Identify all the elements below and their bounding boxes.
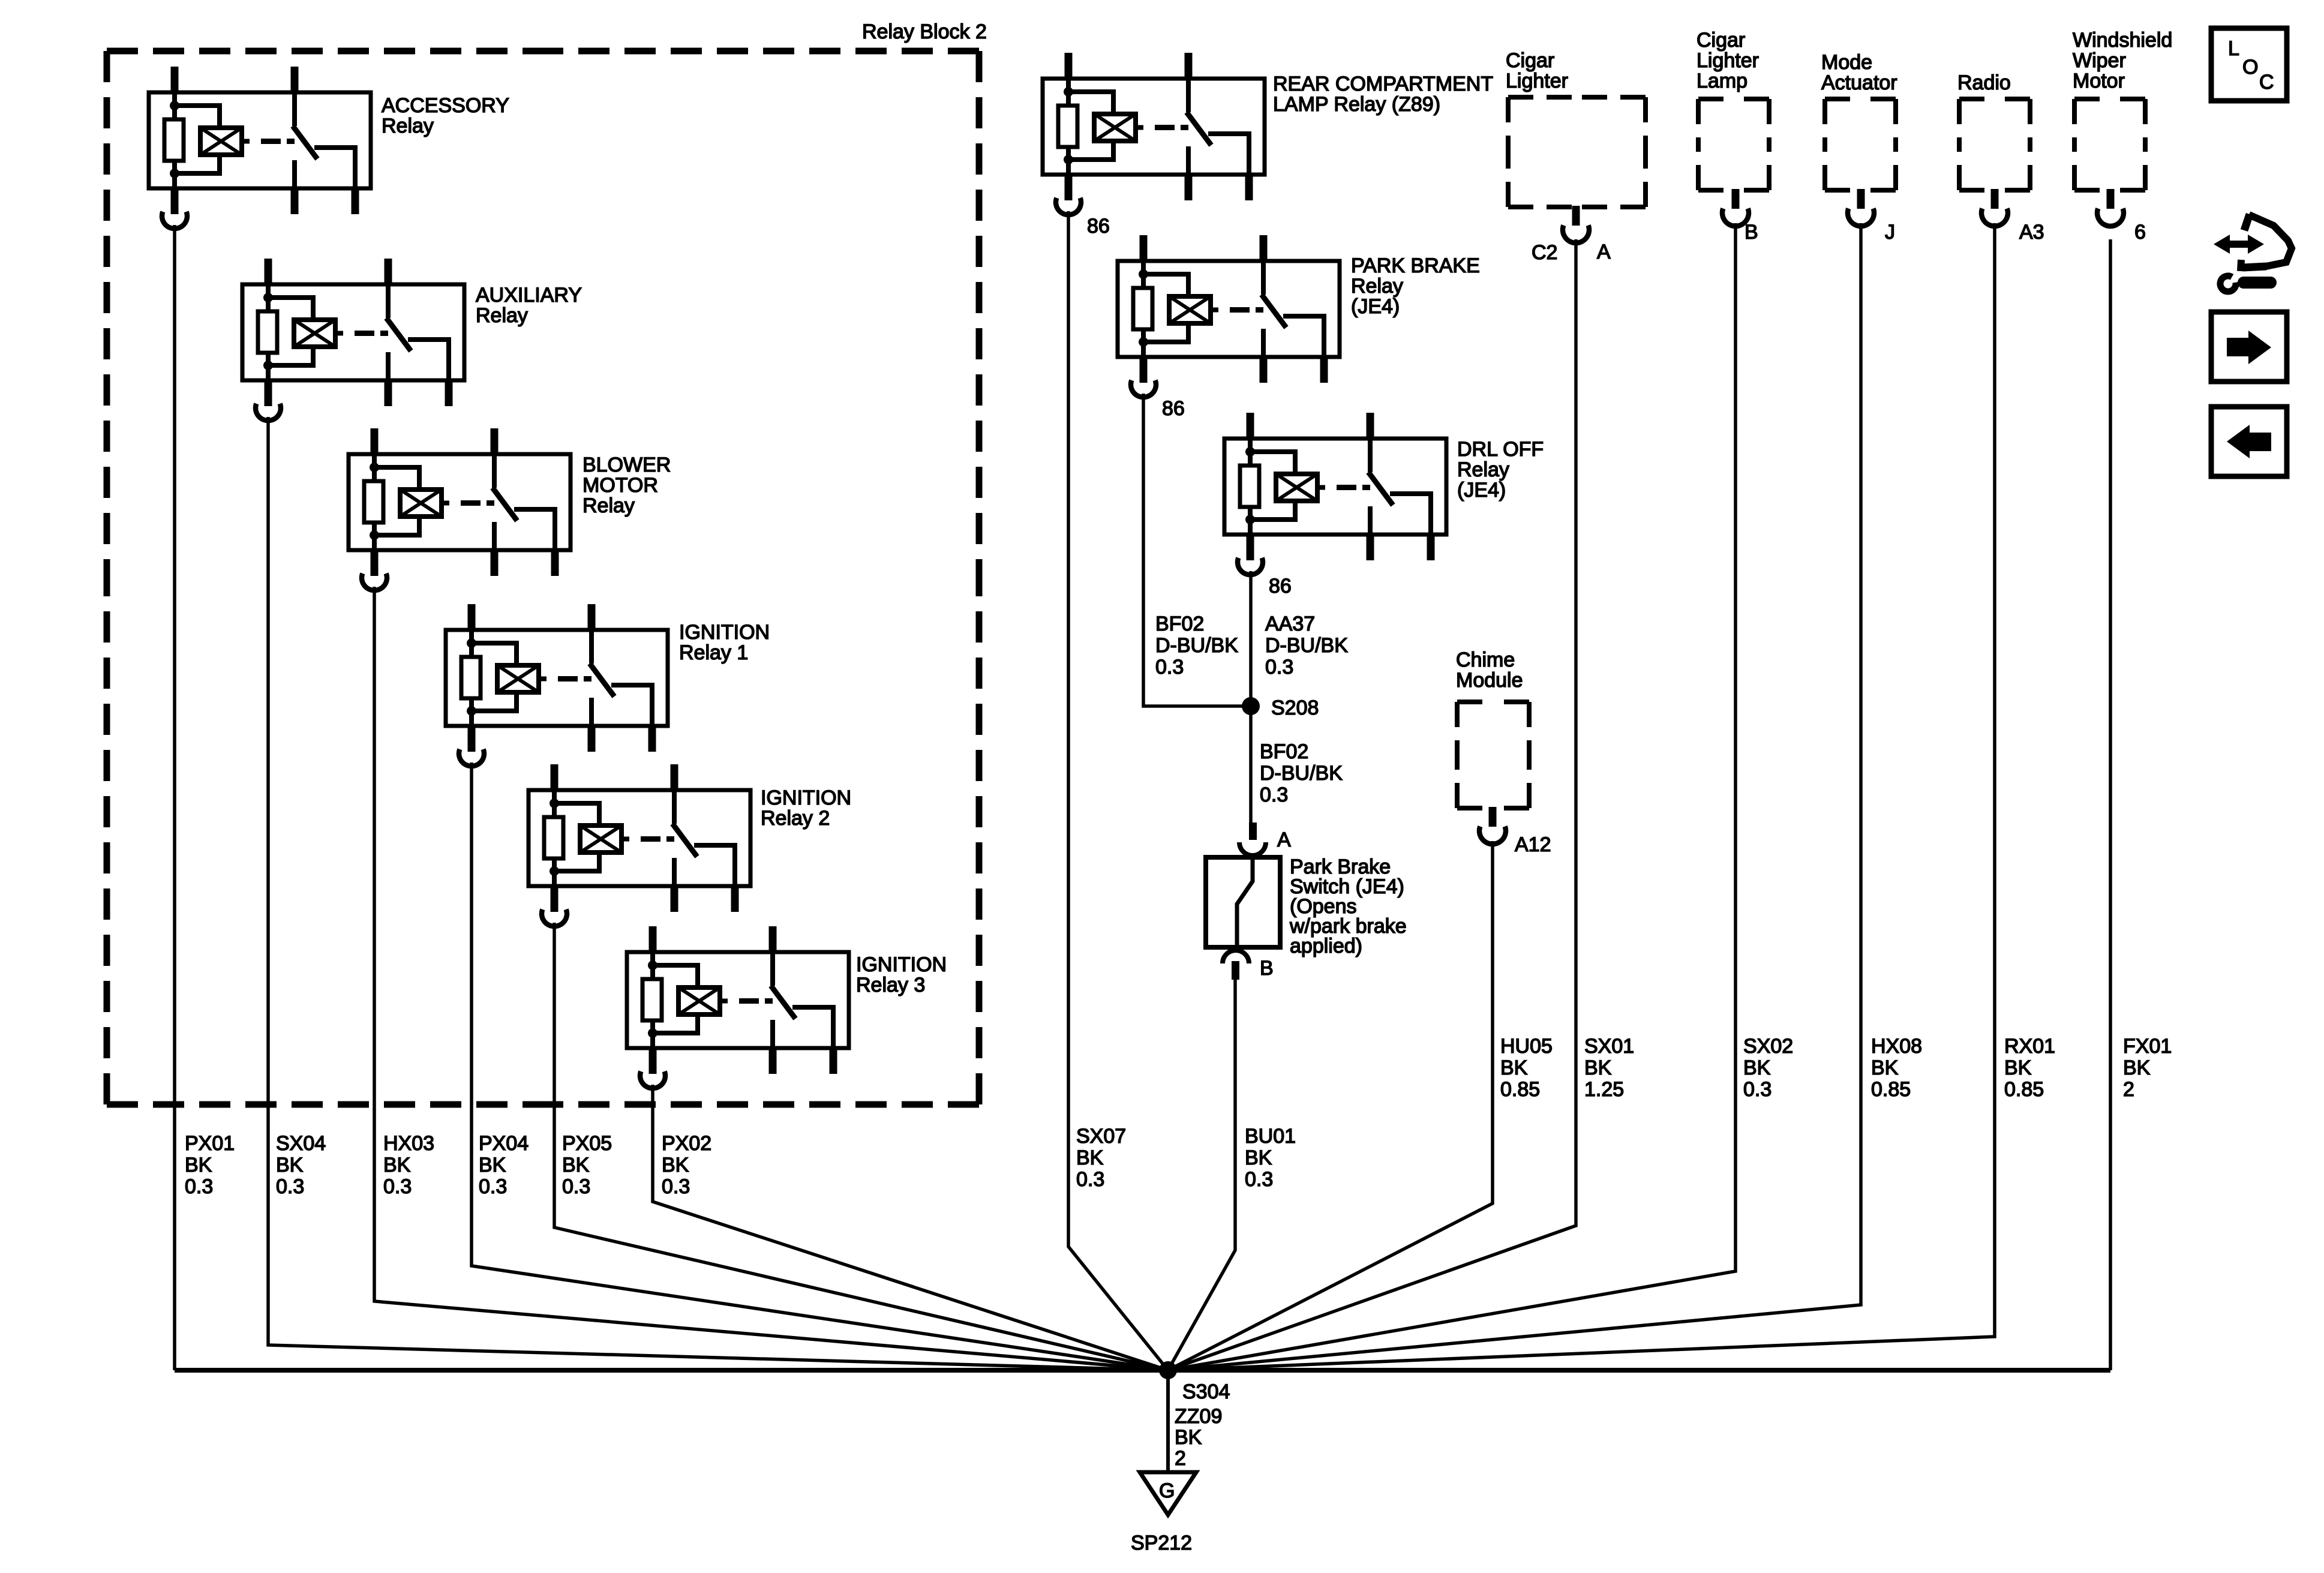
svg-text:0.85: 0.85 (1500, 1078, 1540, 1101)
label AA37 D-BU/BK 0.3 (1265, 613, 1348, 679)
svg-text:Cigar: Cigar (1697, 29, 1745, 52)
label: DRL OFF Relay (JE4) (1457, 438, 1544, 502)
svg-text:BK: BK (185, 1154, 212, 1176)
wire BF02 D-BU/BK 0.3 (S208 to Park Brake Switch pin A) (1249, 706, 1253, 822)
svg-text:BK: BK (2004, 1056, 2032, 1079)
svg-text:Mode: Mode (1821, 51, 1872, 74)
label: REAR COMPARTMENT LAMP Relay (Z89) (1273, 73, 1493, 116)
svg-text:Relay Block 2: Relay Block 2 (862, 20, 987, 43)
label: BLOWER MOTOR Relay (582, 454, 671, 517)
label: Cigar Lighter (1506, 49, 1568, 92)
svg-text:1.25: 1.25 (1584, 1078, 1624, 1101)
icon forward arrow box (2211, 312, 2287, 382)
svg-text:Actuator: Actuator (1821, 71, 1897, 94)
svg-text:BK: BK (1584, 1056, 1612, 1079)
label: Chime Module (1456, 649, 1523, 692)
wire PX01 BK 0.3 (Accessory relay 86 to S304) (173, 225, 176, 1370)
svg-text:0.3: 0.3 (1743, 1078, 1771, 1101)
wire HX03 BK 0.3 (Blower Motor relay 86 to S304) (374, 587, 1168, 1370)
svg-text:Relay: Relay (1351, 275, 1403, 298)
connector pin A of park brake switch (1239, 822, 1291, 855)
svg-text:Chime: Chime (1456, 649, 1515, 671)
splice S304 (1159, 1361, 1177, 1379)
svg-text:SX04: SX04 (276, 1132, 326, 1155)
wire HU05 BK 0.85 (Chime Module A12 to S304) (1168, 841, 1493, 1370)
wire BF02 D-BU/BK 0.3 (Park Brake relay 86 to splice S208) (1143, 394, 1251, 706)
main ground bus wire (horizontal into S304) (175, 1368, 2110, 1373)
svg-text:BK: BK (562, 1154, 590, 1176)
wire SX01 BK 1.25 (Cigar Lighter A to S304) (1168, 239, 1576, 1370)
svg-text:D-BU/BK: D-BU/BK (1265, 634, 1348, 657)
connector pin under connector/component Cigar Lighter (1563, 206, 1589, 243)
svg-text:HU05: HU05 (1500, 1035, 1553, 1058)
svg-text:AA37: AA37 (1265, 613, 1315, 635)
component Radio (1959, 99, 2030, 190)
svg-text:BK: BK (1175, 1426, 1202, 1449)
svg-text:S208: S208 (1271, 697, 1319, 719)
wire ZZ09 BK 2 (S304 to ground SP212) (1166, 1370, 1170, 1472)
relay DRL OFF Relay (JE4) (1224, 413, 1446, 575)
label: ACCESSORY Relay (382, 94, 509, 137)
component Mode Actuator (1825, 99, 1896, 190)
relay REAR COMPARTMENT LAMP Relay (Z89) (1043, 53, 1265, 215)
component Cigar Lighter Lamp (1698, 99, 1769, 190)
label: Cigar Lighter Lamp (1697, 29, 1759, 92)
svg-text:0.3: 0.3 (1155, 656, 1184, 679)
svg-text:0.3: 0.3 (562, 1175, 590, 1198)
svg-text:Windshield: Windshield (2073, 29, 2172, 52)
svg-text:0.3: 0.3 (1265, 656, 1293, 679)
svg-text:BK: BK (1076, 1146, 1104, 1169)
wire SX02 BK 0.3 (Cigar Lighter Lamp B to S304) (1168, 223, 1736, 1370)
label: PARK BRAKE Relay (JE4) (1351, 254, 1480, 318)
svg-text:86: 86 (1162, 397, 1185, 420)
svg-text:0.3: 0.3 (185, 1175, 213, 1198)
svg-text:BK: BK (662, 1154, 689, 1176)
svg-text:A12: A12 (1515, 833, 1551, 856)
wire BU01 BK 0.3 (Park Brake Switch pin B to S304) (1168, 980, 1235, 1370)
svg-text:ACCESSORY: ACCESSORY (382, 94, 509, 117)
icon LOC reference box (2211, 28, 2287, 101)
svg-text:2: 2 (1175, 1447, 1186, 1470)
svg-text:B: B (1260, 957, 1274, 980)
connector pin under component Radio (1981, 189, 2008, 226)
svg-text:A3: A3 (2019, 221, 2044, 244)
svg-text:IGNITION: IGNITION (679, 621, 770, 644)
svg-text:HX08: HX08 (1871, 1035, 1922, 1058)
svg-text:(JE4): (JE4) (1351, 295, 1400, 318)
label: IGNITION Relay 2 (761, 786, 851, 830)
svg-text:PX05: PX05 (562, 1132, 612, 1155)
svg-text:Module: Module (1456, 669, 1523, 692)
component Chime Module (1457, 702, 1529, 808)
svg-text:86: 86 (1269, 575, 1292, 598)
label: Windshield Wiper Motor (2073, 29, 2172, 92)
svg-text:BLOWER: BLOWER (582, 454, 671, 476)
label: Radio (1957, 71, 2011, 94)
svg-text:0.3: 0.3 (662, 1175, 690, 1198)
wire AA37 D-BU/BK 0.3 (DRL OFF relay 86 to splice S208) (1249, 571, 1253, 706)
svg-text:Relay 1: Relay 1 (679, 641, 748, 664)
svg-text:J: J (1885, 221, 1895, 244)
svg-text:A: A (1277, 828, 1291, 851)
relay ACCESSORY Relay K1 (149, 67, 371, 229)
svg-text:IGNITION: IGNITION (761, 786, 851, 809)
label BU01 BK 0.3 (1245, 1125, 1296, 1191)
label BF02 D-BU/BK 0.3 (upper) (1155, 613, 1238, 679)
svg-text:(JE4): (JE4) (1457, 479, 1506, 502)
icon back arrow box (2211, 407, 2287, 476)
splice S208 (1242, 697, 1260, 715)
svg-text:PX01: PX01 (185, 1132, 235, 1155)
svg-text:G: G (1159, 1479, 1175, 1502)
label FX01 BK 2 (2123, 1035, 2172, 1101)
svg-text:86: 86 (1087, 215, 1110, 238)
wire FX01 BK 2 (Windshield Wiper Motor 6 to S304) (2109, 239, 2112, 1370)
svg-text:ZZ09: ZZ09 (1175, 1405, 1222, 1428)
svg-text:Relay: Relay (476, 304, 528, 327)
ground G symbol (1140, 1472, 1196, 1515)
svg-text:BF02: BF02 (1260, 740, 1308, 763)
svg-text:C2: C2 (1532, 241, 1557, 264)
connector pin under component Mode Actuator (1848, 189, 1874, 226)
wire SX04 BK 0.3 (Auxiliary relay 86 to S304) (268, 417, 1168, 1370)
svg-text:L: L (2228, 37, 2239, 60)
connector pin under component Chime Module (1479, 807, 1506, 844)
relay IGNITION Relay 3 K6 (627, 926, 849, 1088)
svg-text:C: C (2259, 71, 2274, 94)
svg-text:0.3: 0.3 (383, 1175, 412, 1198)
svg-text:Motor: Motor (2073, 70, 2125, 92)
svg-text:B: B (1744, 221, 1758, 244)
svg-text:BK: BK (1871, 1056, 1899, 1079)
svg-text:RX01: RX01 (2004, 1035, 2055, 1058)
svg-text:IGNITION: IGNITION (856, 953, 947, 976)
svg-text:SP212: SP212 (1131, 1532, 1192, 1554)
svg-text:REAR COMPARTMENT: REAR COMPARTMENT (1273, 73, 1493, 95)
relay AUXILIARY Relay K2 (242, 259, 464, 421)
svg-text:Lighter: Lighter (1506, 70, 1568, 92)
svg-text:PX04: PX04 (479, 1132, 529, 1155)
connector pin under component Cigar Lighter Lamp (1722, 189, 1749, 226)
label SX01 BK 1.25 (1584, 1035, 1634, 1101)
label SX04 BK 0.3 (276, 1132, 326, 1198)
svg-text:applied): applied) (1290, 935, 1362, 957)
svg-text:S304: S304 (1182, 1380, 1230, 1403)
svg-text:BK: BK (1500, 1056, 1528, 1079)
svg-text:Lighter: Lighter (1697, 49, 1759, 72)
svg-text:SX01: SX01 (1584, 1035, 1634, 1058)
wire HX08 BK 0.85 (Mode Actuator J to S304) (1168, 223, 1861, 1370)
svg-text:D-BU/BK: D-BU/BK (1155, 634, 1238, 657)
label SX07 BK 0.3 (1076, 1125, 1126, 1191)
relay block 2 dashed enclosure (107, 51, 979, 1104)
wire RX01 BK 0.85 (Radio A3 to S304) (1168, 223, 1995, 1370)
label HX03 BK 0.3 (383, 1132, 434, 1198)
svg-text:FX01: FX01 (2123, 1035, 2172, 1058)
wire PX05 BK 0.3 (Ignition relay 2 86 to S304) (554, 923, 1168, 1370)
wire PX04 BK 0.3 (Ignition relay 1 86 to S304) (472, 763, 1168, 1370)
svg-text:DRL OFF: DRL OFF (1457, 438, 1544, 461)
svg-text:Lamp: Lamp (1697, 70, 1747, 92)
svg-text:BK: BK (1743, 1056, 1771, 1079)
svg-text:Cigar: Cigar (1506, 49, 1554, 72)
svg-text:PX02: PX02 (662, 1132, 711, 1155)
svg-text:D-BU/BK: D-BU/BK (1260, 762, 1343, 785)
svg-text:0.85: 0.85 (2004, 1078, 2044, 1101)
svg-text:BK: BK (383, 1154, 411, 1176)
svg-text:Relay: Relay (582, 494, 635, 517)
label PX02 BK 0.3 (662, 1132, 711, 1198)
svg-text:BK: BK (479, 1154, 506, 1176)
svg-text:0.3: 0.3 (1076, 1168, 1104, 1191)
wire PX02 BK 0.3 (Ignition relay 3 86 to S304) (653, 1085, 1168, 1370)
relay IGNITION Relay 1 K4 (446, 604, 668, 766)
relay BLOWER MOTOR Relay K3 (349, 428, 571, 590)
label PX04 BK 0.3 (479, 1132, 529, 1198)
svg-text:Relay 3: Relay 3 (856, 974, 925, 996)
svg-text:BK: BK (276, 1154, 304, 1176)
svg-text:SX02: SX02 (1743, 1035, 1793, 1058)
svg-text:BU01: BU01 (1245, 1125, 1296, 1148)
svg-text:MOTOR: MOTOR (582, 474, 658, 497)
svg-text:Wiper: Wiper (2073, 49, 2126, 72)
svg-text:BK: BK (1245, 1146, 1272, 1169)
svg-text:Relay: Relay (1457, 458, 1509, 481)
label HX08 BK 0.85 (1871, 1035, 1922, 1101)
label HU05 BK 0.85 (1500, 1035, 1553, 1101)
svg-text:6: 6 (2134, 221, 2146, 244)
label SX02 BK 0.3 (1743, 1035, 1793, 1101)
svg-text:2: 2 (2123, 1078, 2134, 1101)
svg-text:A: A (1597, 241, 1611, 263)
label BF02 D-BU/BK 0.3 (lower) (1260, 740, 1343, 806)
svg-text:0.3: 0.3 (276, 1175, 304, 1198)
svg-text:AUXILIARY: AUXILIARY (476, 284, 582, 307)
label: Mode Actuator (1821, 51, 1897, 94)
svg-text:HX03: HX03 (383, 1132, 434, 1155)
svg-text:Radio: Radio (1957, 71, 2011, 94)
switch SW1 Park Brake Switch (JE4) (1206, 855, 1407, 957)
component Windshield Wiper Motor (2074, 99, 2145, 190)
relay IGNITION Relay 2 K5 (529, 764, 750, 926)
svg-text:PARK BRAKE: PARK BRAKE (1351, 254, 1480, 277)
label PX01 BK 0.3 (185, 1132, 235, 1198)
connector/component Cigar Lighter (1508, 97, 1646, 207)
svg-text:BK: BK (2123, 1056, 2151, 1079)
svg-text:0.85: 0.85 (1871, 1078, 1911, 1101)
label PX05 BK 0.3 (562, 1132, 612, 1198)
label: IGNITION Relay 3 (856, 953, 947, 996)
svg-text:Relay 2: Relay 2 (761, 807, 830, 830)
svg-text:0.3: 0.3 (1245, 1168, 1273, 1191)
wire SX07 BK 0.3 (Rear Compartment Lamp relay 86 to S304) (1068, 211, 1168, 1370)
label: IGNITION Relay 1 (679, 621, 770, 664)
svg-text:0.3: 0.3 (479, 1175, 507, 1198)
connector pin B of park brake switch (1223, 950, 1274, 980)
svg-text:O: O (2242, 56, 2258, 79)
label: AUXILIARY Relay (476, 284, 582, 327)
svg-text:0.3: 0.3 (1260, 784, 1288, 806)
svg-text:SX07: SX07 (1076, 1125, 1126, 1148)
relay PARK BRAKE Relay (JE4) (1118, 235, 1340, 397)
svg-text:Relay: Relay (382, 115, 434, 137)
icon harness routing (double arrow, outline, wrench) (2214, 214, 2292, 292)
label RX01 BK 0.85 (2004, 1035, 2055, 1101)
connector pin under component Windshield Wiper Motor (2097, 189, 2124, 226)
svg-text:BF02: BF02 (1155, 613, 1204, 635)
svg-text:LAMP Relay (Z89): LAMP Relay (Z89) (1273, 93, 1440, 116)
